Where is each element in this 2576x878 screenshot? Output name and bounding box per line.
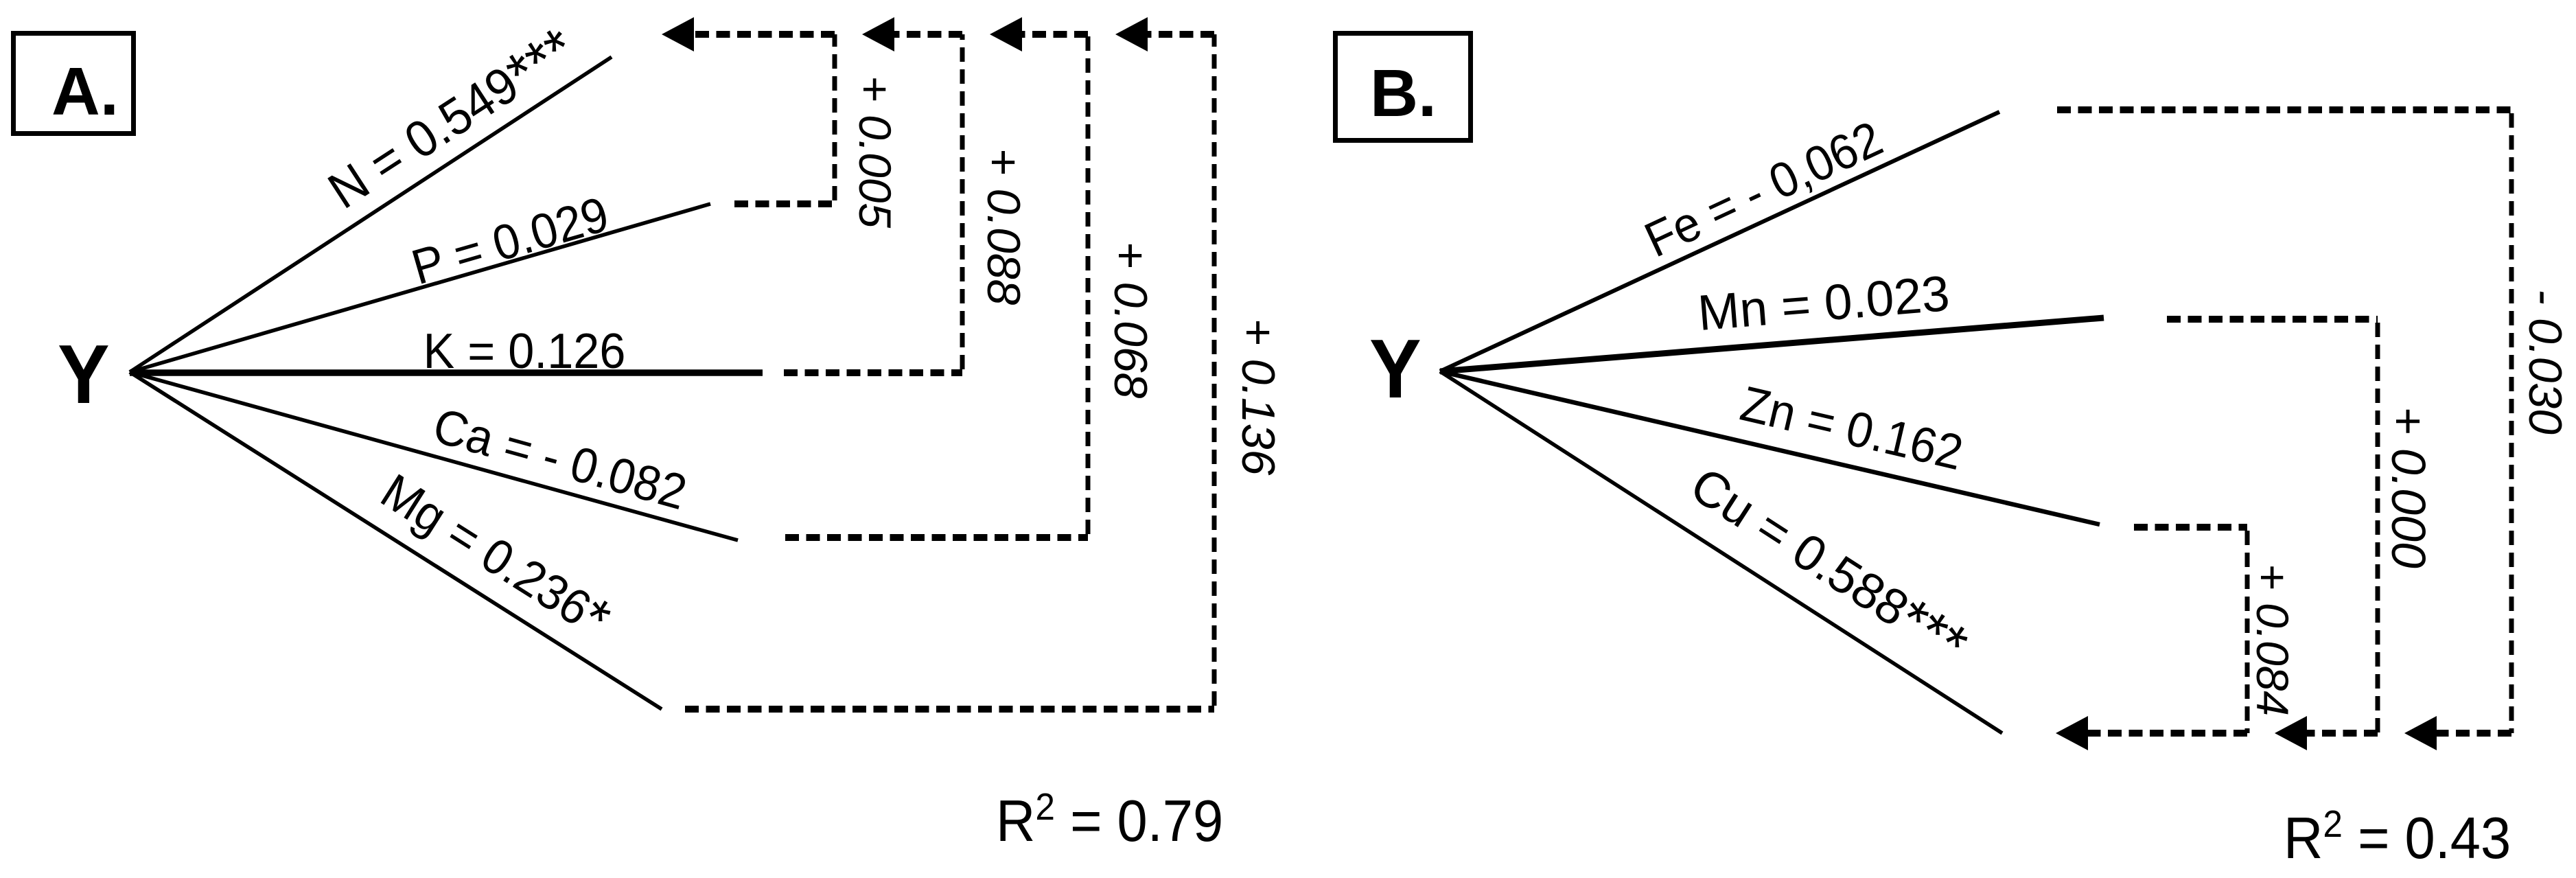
arrowhead Ca-N: [990, 17, 1022, 51]
wire Ca-N correlation horizontal: [785, 534, 1088, 541]
wire Zn-Cu correlation horizontal: [2134, 524, 2247, 531]
dashed correlation arrows (horizontal runs): [685, 34, 2511, 733]
wire Ca path: [130, 372, 738, 540]
wire P-N correlation horizontal: [734, 200, 835, 207]
wire Mn-Cu correlation vertical: [2376, 323, 2380, 733]
wire Fe-Cu correlation horizontal: [2057, 106, 2511, 113]
wire K-N correlation horizontal: [784, 369, 962, 376]
svg-text:+ 0.000: + 0.000: [2382, 406, 2435, 568]
svg-text:- 0.030: - 0.030: [2519, 289, 2571, 435]
svg-text:+ 0.136: + 0.136: [1232, 319, 1284, 476]
svg-text:Y: Y: [1369, 321, 1422, 415]
svg-text:K = 0.126: K = 0.126: [423, 323, 626, 379]
wire Ca-N correlation vertical: [1086, 34, 1091, 534]
svg-text:+ 0.088: + 0.088: [977, 148, 1030, 305]
wire K path: [130, 369, 763, 376]
panel A label box: [14, 34, 134, 134]
arrowhead P-N: [662, 17, 694, 51]
wire Mn-Cu correlation horizontal: [2167, 316, 2378, 323]
svg-text:R2 = 0.79: R2 = 0.79: [996, 786, 1223, 853]
arrowhead Zn-Cu: [2056, 716, 2088, 750]
wire Mg path: [130, 372, 662, 709]
wire Fe path: [1440, 112, 1999, 371]
svg-text:A.: A.: [51, 54, 119, 129]
wire Mn path: [1440, 318, 2104, 371]
svg-text:+ 0.084: + 0.084: [2247, 564, 2298, 716]
arrowheads: [662, 17, 2437, 750]
wire Zn path: [1440, 371, 2100, 524]
svg-text:R2 = 0.43: R2 = 0.43: [2284, 803, 2511, 870]
svg-text:+ 0.068: + 0.068: [1104, 242, 1157, 399]
arrowhead K-N: [862, 17, 894, 51]
wire Zn-Cu correlation vertical: [2245, 531, 2250, 733]
svg-text:B.: B.: [1370, 56, 1437, 130]
wire Mg-N correlation vertical: [1212, 34, 1217, 706]
wire K-N correlation vertical: [960, 34, 965, 369]
svg-text:Y: Y: [58, 327, 110, 421]
svg-text:+ 0.005: + 0.005: [850, 76, 901, 228]
wire N path: [130, 57, 612, 372]
wire P path: [130, 204, 710, 372]
wire Mg-N correlation horizontal: [685, 706, 1214, 713]
wire Fe-Cu correlation vertical: [2509, 113, 2514, 733]
wire P-N correlation vertical: [833, 34, 837, 200]
dashed correlation arrows (vertical runs): [835, 34, 2511, 733]
arrowhead Fe-Cu: [2404, 716, 2437, 750]
wire Cu path: [1440, 371, 2002, 733]
panel B label box: [1336, 34, 1471, 141]
arrowhead Mn-Cu: [2275, 716, 2307, 750]
arrowhead Mg-N: [1115, 17, 1148, 51]
